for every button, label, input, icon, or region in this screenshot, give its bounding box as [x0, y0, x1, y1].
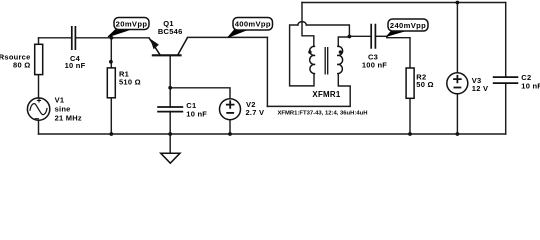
- node dot rail V3: [456, 132, 460, 136]
- svg-text:510 Ω: 510 Ω: [119, 78, 141, 87]
- wire R2 to rail: [409, 98, 411, 134]
- wire V3 to rail: [456, 94, 458, 134]
- wire Rsource to V1: [38, 75, 40, 98]
- node dot rail R2: [408, 132, 412, 136]
- wire base node to V2: [170, 88, 230, 99]
- phase dot secondary: [339, 50, 342, 53]
- wire top-left from C4 to left branch: [39, 37, 72, 39]
- wire transformer bottom: [267, 74, 350, 107]
- wire probe point to R2: [387, 38, 410, 68]
- wire C2 top branch: [505, 3, 507, 78]
- wire collector drop: [266, 37, 268, 106]
- wire tap to C3: [349, 35, 371, 37]
- wire C3 to probe point: [376, 35, 387, 37]
- svg-text:240mVpp: 240mVpp: [390, 21, 426, 30]
- wire junction down to R1: [110, 38, 112, 68]
- svg-text:400mVpp: 400mVpp: [235, 20, 271, 29]
- svg-text:2.7 V: 2.7 V: [246, 108, 265, 117]
- svg-text:10 nF: 10 nF: [65, 61, 86, 70]
- node dot rail V2: [228, 132, 232, 136]
- wire V1 to ground rail: [38, 120, 40, 134]
- wire C2 to rail: [505, 83, 507, 134]
- svg-text:C1: C1: [186, 101, 196, 110]
- capacitor C3: [362, 24, 387, 70]
- node dot rail gnd: [168, 132, 172, 136]
- svg-text:12 V: 12 V: [472, 84, 488, 93]
- wire R1 to rail: [110, 98, 112, 134]
- transistor Q1: [149, 19, 188, 55]
- wire collector run: [188, 36, 268, 38]
- node dot top rail V3: [456, 1, 460, 5]
- probe callout 20mVpp: [108, 18, 149, 37]
- core: [325, 47, 328, 75]
- wire secondary top to tap: [338, 37, 349, 46]
- source V1: [27, 96, 82, 123]
- svg-text:XFMR1: XFMR1: [312, 90, 341, 99]
- svg-text:20mVpp: 20mVpp: [116, 19, 148, 28]
- wire top rail to primary top: [302, 3, 314, 47]
- probe callout 240mVpp: [387, 19, 428, 36]
- resistor Rsource: [0, 44, 43, 74]
- wire base lead Q1 to C1: [169, 55, 171, 107]
- secondary winding: [337, 46, 343, 73]
- ground: [161, 153, 180, 163]
- svg-text:10 nF: 10 nF: [186, 110, 207, 119]
- wire V3 branch: [456, 3, 458, 73]
- capacitor C2: [493, 73, 540, 90]
- wire top supply rail: [302, 2, 506, 4]
- wire ground stub: [169, 134, 171, 153]
- svg-text:100 nF: 100 nF: [362, 61, 387, 70]
- wire C4 to emitter junction: [76, 37, 149, 39]
- node dot emitter junction: [110, 36, 114, 40]
- svg-text:sine: sine: [55, 104, 71, 113]
- resistor R1: [107, 68, 141, 98]
- wire ground rail: [39, 133, 506, 135]
- transformer XFMR1: [310, 46, 343, 74]
- probe callout 400mVpp: [228, 18, 273, 38]
- resistor R2: [406, 68, 434, 98]
- capacitor C4: [65, 26, 86, 70]
- node dot above R1: [109, 60, 113, 64]
- node dot base/C1/V2: [168, 86, 172, 90]
- node dot rail R1: [109, 132, 113, 136]
- phase dot primary: [308, 50, 311, 53]
- wire V2 to rail: [229, 120, 231, 134]
- svg-text:80 Ω: 80 Ω: [13, 61, 30, 70]
- svg-text:BC546: BC546: [158, 27, 183, 36]
- wire primary bottom loop: [290, 25, 314, 86]
- node dot tap: [348, 35, 352, 39]
- wire hop to tap corner: [306, 25, 349, 36]
- capacitor C1: [157, 101, 207, 119]
- svg-text:50 Ω: 50 Ω: [416, 80, 433, 89]
- wire hop over: [298, 22, 306, 25]
- source V3: [447, 73, 488, 94]
- wire C1 to rail: [169, 112, 171, 134]
- svg-text:V1: V1: [55, 96, 65, 105]
- source V2: [220, 99, 265, 120]
- svg-text:21 MHz: 21 MHz: [55, 113, 82, 122]
- svg-text:10 nF: 10 nF: [521, 82, 540, 91]
- primary winding: [310, 46, 316, 73]
- wire left branch down to Rsource: [38, 38, 40, 45]
- svg-text:XFMR1:FT37-43, 12:4, 36uH:4uH: XFMR1:FT37-43, 12:4, 36uH:4uH: [277, 110, 367, 116]
